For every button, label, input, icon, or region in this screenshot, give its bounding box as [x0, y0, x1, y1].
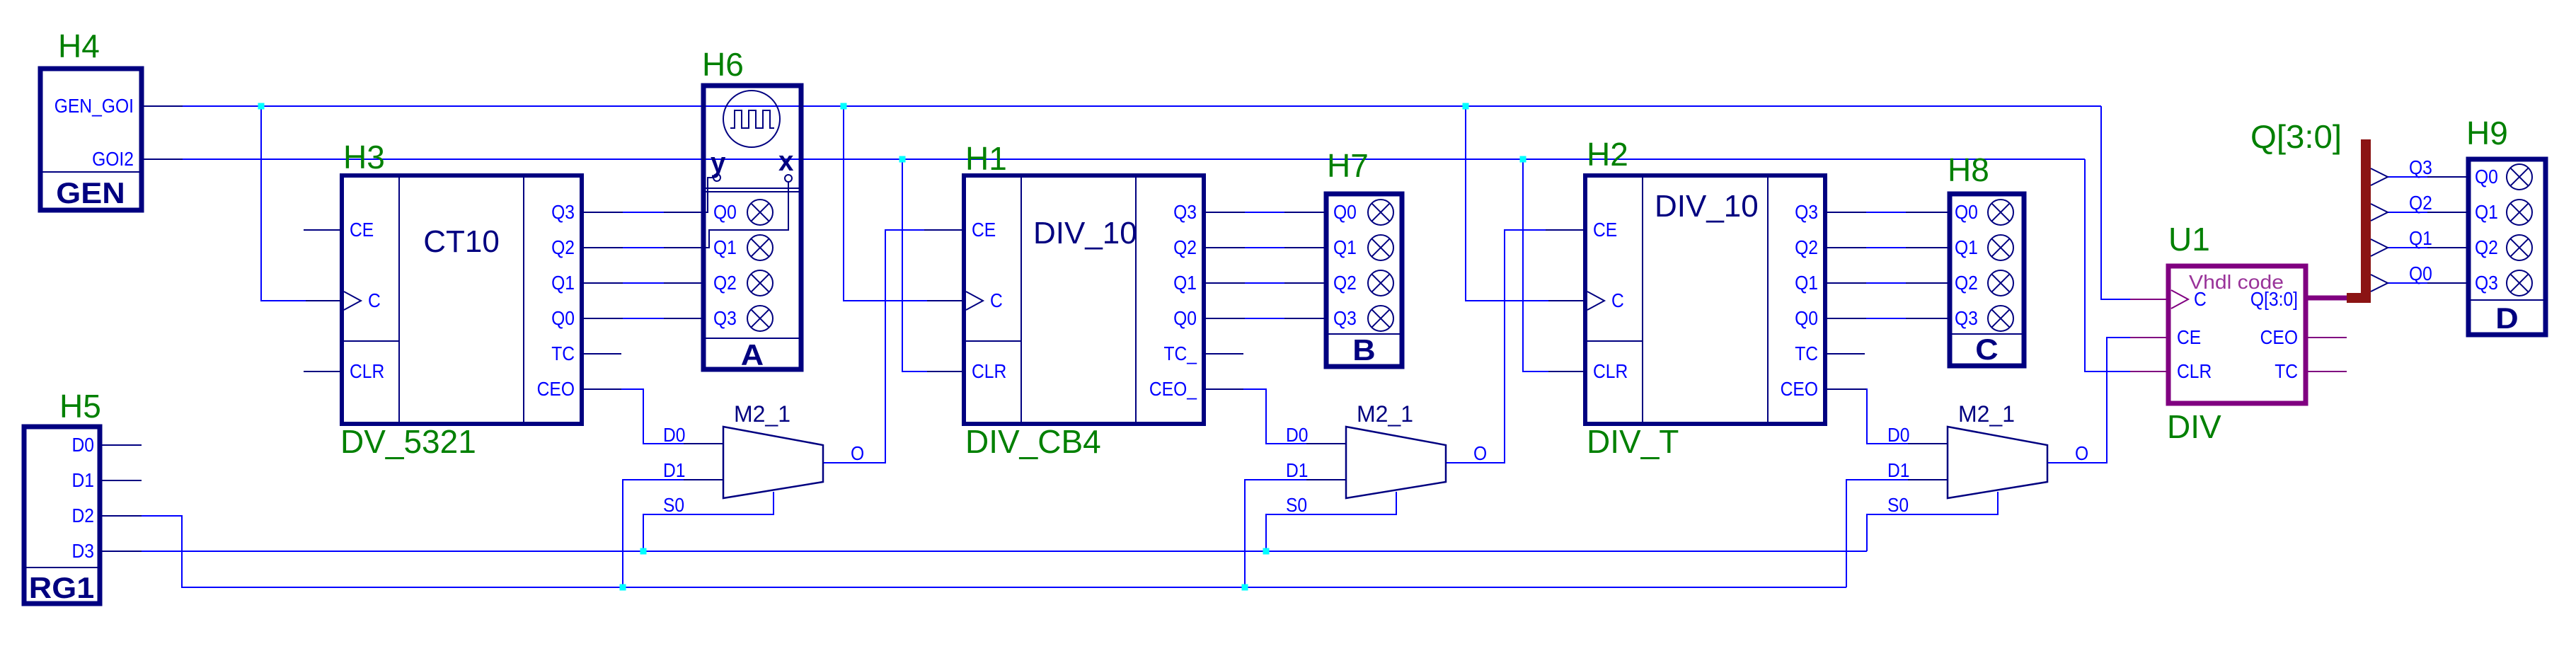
svg-text:Q3: Q3: [1173, 201, 1197, 223]
svg-text:D: D: [2495, 301, 2518, 335]
svg-text:CEO_: CEO_: [1149, 378, 1197, 400]
svg-text:Q3: Q3: [1955, 307, 1978, 329]
svg-text:D0: D0: [72, 434, 95, 456]
svg-text:C: C: [1611, 289, 1624, 311]
svg-text:Q0: Q0: [1795, 307, 1818, 329]
svg-text:Q[3:0]: Q[3:0]: [2250, 288, 2298, 310]
svg-text:C: C: [1975, 333, 1998, 366]
svg-text:H6: H6: [702, 46, 744, 83]
svg-text:D0: D0: [663, 424, 686, 446]
svg-text:Q3: Q3: [713, 307, 737, 329]
svg-text:Q1: Q1: [1955, 236, 1978, 258]
svg-text:Q3: Q3: [2409, 156, 2432, 178]
svg-text:H4: H4: [58, 28, 100, 64]
svg-text:S0: S0: [1887, 494, 1909, 516]
svg-text:Q2: Q2: [713, 272, 737, 294]
svg-text:Q3: Q3: [551, 201, 575, 223]
svg-text:CE: CE: [2177, 326, 2201, 348]
svg-text:H9: H9: [2466, 115, 2508, 151]
svg-text:Q0: Q0: [713, 201, 737, 223]
svg-text:Q1: Q1: [1795, 272, 1818, 294]
svg-text:Q0: Q0: [1955, 201, 1978, 223]
svg-text:U1: U1: [2168, 221, 2210, 258]
svg-text:Q[3:0]: Q[3:0]: [2250, 118, 2342, 155]
svg-text:D0: D0: [1887, 424, 1910, 446]
svg-text:CEO: CEO: [2260, 326, 2298, 348]
svg-text:Q2: Q2: [1955, 272, 1978, 294]
svg-text:Q0: Q0: [2409, 263, 2432, 284]
svg-text:CLR: CLR: [972, 360, 1006, 382]
svg-text:O: O: [2075, 442, 2088, 464]
svg-text:S0: S0: [1286, 494, 1307, 516]
svg-text:C: C: [2194, 288, 2207, 310]
svg-text:DIV_10: DIV_10: [1655, 189, 1759, 224]
svg-text:D1: D1: [72, 469, 95, 491]
svg-text:x: x: [778, 146, 793, 177]
svg-text:DIV_10: DIV_10: [1033, 216, 1137, 250]
svg-text:CLR: CLR: [2177, 360, 2212, 382]
svg-text:Q3: Q3: [1795, 201, 1818, 223]
svg-text:D0: D0: [1286, 424, 1309, 446]
svg-text:DIV_T: DIV_T: [1587, 423, 1679, 460]
svg-text:M2_1: M2_1: [734, 401, 790, 427]
svg-text:D1: D1: [1887, 459, 1910, 481]
svg-text:Q2: Q2: [551, 236, 575, 258]
svg-text:CEO: CEO: [537, 378, 575, 400]
svg-text:Q1: Q1: [551, 272, 575, 294]
svg-text:O: O: [851, 442, 864, 464]
svg-text:M2_1: M2_1: [1958, 401, 2015, 427]
svg-text:RG1: RG1: [29, 571, 94, 604]
svg-text:H1: H1: [965, 140, 1007, 177]
svg-text:CE: CE: [1593, 219, 1617, 241]
svg-text:A: A: [741, 338, 764, 371]
svg-text:TC: TC: [551, 342, 575, 364]
svg-text:Q1: Q1: [1333, 236, 1357, 258]
svg-text:CLR: CLR: [1593, 360, 1628, 382]
svg-text:CT10: CT10: [423, 224, 500, 259]
svg-text:H3: H3: [343, 139, 385, 175]
svg-text:Q0: Q0: [1333, 201, 1357, 223]
svg-text:D1: D1: [663, 459, 686, 481]
svg-text:Q3: Q3: [1333, 307, 1357, 329]
svg-text:C: C: [368, 289, 381, 311]
svg-text:B: B: [1352, 333, 1375, 367]
svg-text:Q1: Q1: [713, 236, 737, 258]
svg-text:Q2: Q2: [1333, 272, 1357, 294]
svg-text:Q2: Q2: [2475, 236, 2498, 258]
svg-text:D1: D1: [1286, 459, 1309, 481]
svg-text:CLR: CLR: [350, 360, 384, 382]
svg-text:H5: H5: [59, 388, 101, 425]
svg-text:H7: H7: [1327, 147, 1369, 184]
svg-text:M2_1: M2_1: [1357, 401, 1413, 427]
svg-text:Q2: Q2: [1795, 236, 1818, 258]
svg-text:DIV: DIV: [2167, 408, 2221, 445]
svg-text:GOI2: GOI2: [92, 148, 134, 170]
svg-text:D3: D3: [72, 540, 95, 562]
svg-text:S0: S0: [663, 494, 684, 516]
svg-text:Q0: Q0: [551, 307, 575, 329]
svg-text:H2: H2: [1587, 136, 1628, 173]
svg-text:Q0: Q0: [1173, 307, 1197, 329]
svg-text:Q1: Q1: [2409, 227, 2432, 249]
svg-text:Q3: Q3: [2475, 272, 2498, 294]
svg-text:H8: H8: [1948, 151, 1989, 188]
svg-text:Q1: Q1: [2475, 201, 2498, 223]
svg-text:TC: TC: [2275, 360, 2298, 382]
svg-text:CE: CE: [972, 219, 996, 241]
svg-text:Q2: Q2: [2409, 192, 2432, 214]
svg-text:CEO: CEO: [1781, 378, 1818, 400]
svg-text:Q2: Q2: [1173, 236, 1197, 258]
svg-text:D2: D2: [72, 505, 95, 526]
svg-text:C: C: [990, 289, 1003, 311]
svg-text:DIV_CB4: DIV_CB4: [965, 423, 1101, 460]
svg-text:CE: CE: [350, 219, 374, 241]
svg-text:GEN_GOI: GEN_GOI: [54, 95, 134, 117]
svg-text:TC_: TC_: [1164, 342, 1197, 364]
svg-text:TC: TC: [1795, 342, 1818, 364]
svg-text:GEN: GEN: [56, 176, 125, 209]
svg-text:DV_5321: DV_5321: [340, 423, 476, 460]
svg-text:Q0: Q0: [2475, 166, 2498, 188]
svg-text:O: O: [1473, 442, 1487, 464]
svg-text:Q1: Q1: [1173, 272, 1197, 294]
